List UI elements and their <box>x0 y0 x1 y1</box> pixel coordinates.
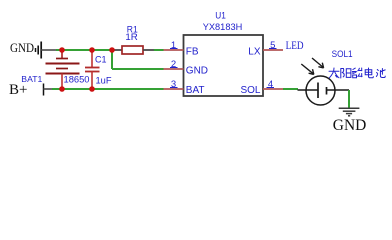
capacitor C1 <box>85 50 100 89</box>
wire solar cell to ground <box>348 90 350 108</box>
svg-text:LED: LED <box>286 40 304 52</box>
resistor R1 <box>112 46 154 54</box>
wire B+ net bottom horizontal <box>52 88 164 90</box>
svg-text:B+: B+ <box>9 82 27 98</box>
svg-text:5: 5 <box>270 40 275 51</box>
svg-text:BAT: BAT <box>186 85 205 96</box>
svg-text:SOL1: SOL1 <box>332 49 353 59</box>
svg-text:LX: LX <box>248 47 261 58</box>
power port GND (top left) <box>10 40 57 59</box>
wire GND net vertical to pin2 <box>111 50 113 69</box>
wire pin4 to solar cell <box>283 88 298 90</box>
svg-text:1: 1 <box>171 40 176 51</box>
svg-text:U1: U1 <box>215 11 226 21</box>
svg-text:SOL: SOL <box>240 85 260 96</box>
junction top capacitor <box>89 47 95 53</box>
pin 2 GND <box>164 59 209 77</box>
svg-text:YX8183H: YX8183H <box>203 22 243 33</box>
svg-text:C1: C1 <box>95 55 107 65</box>
svg-text:1R: 1R <box>125 32 138 42</box>
svg-text:3: 3 <box>171 79 176 90</box>
svg-text:1uF: 1uF <box>96 76 112 87</box>
power port B+ (left) <box>9 82 53 98</box>
svg-text:GND: GND <box>10 40 34 55</box>
junction bottom battery <box>59 86 65 92</box>
svg-text:FB: FB <box>186 47 199 58</box>
pin 1 FB <box>164 40 199 58</box>
svg-text:BAT1: BAT1 <box>21 74 42 84</box>
solar cell SOL1 <box>298 58 350 105</box>
svg-text:GND: GND <box>186 65 208 76</box>
pin 3 BAT <box>164 79 205 96</box>
ground (earth) symbol <box>339 108 360 116</box>
pin 5 LX <box>248 40 283 58</box>
svg-text:2: 2 <box>171 59 176 70</box>
pin 4 SOL <box>240 79 283 96</box>
junction top pin2 branch <box>109 47 115 53</box>
svg-text:4: 4 <box>268 79 273 90</box>
wire GND net horizontal to pin2 <box>112 68 164 70</box>
junction bottom capacitor <box>89 86 95 92</box>
svg-text:18650: 18650 <box>64 75 90 85</box>
label solar battery (chinese) <box>329 68 385 78</box>
wire GND net top horizontal <box>56 49 112 51</box>
wire R1 to pin1 <box>154 49 164 51</box>
junction top battery <box>59 47 65 53</box>
battery BAT1 <box>46 50 80 89</box>
op-amp U1 body <box>184 35 264 96</box>
svg-text:GND: GND <box>333 117 367 134</box>
